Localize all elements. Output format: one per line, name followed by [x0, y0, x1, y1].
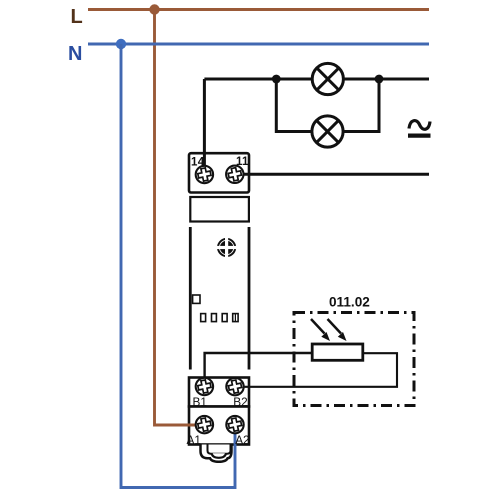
node: L junction [149, 4, 159, 14]
relay module K1: seam band below top block [190, 197, 249, 222]
photoresistor body [312, 344, 363, 360]
wire: L phase line (brown) [88, 8, 429, 11]
svg-text:11: 11 [236, 156, 249, 168]
wire: B2 to light sensor return [235, 353, 397, 387]
relay K1 DIN-rail clip inner band [208, 445, 231, 454]
relay K1 DIN-rail clip [201, 445, 232, 462]
relay K1 DIP switch 1 [201, 314, 206, 322]
svg-text:L: L [71, 6, 83, 28]
relay K1 DIP switch 3 [222, 314, 227, 322]
light arrow 2 [328, 319, 347, 341]
relay K1 indicator window [193, 295, 200, 303]
svg-text:A2: A2 [235, 433, 249, 447]
node: N junction [116, 39, 126, 49]
relay K1 central adjuster screw [217, 238, 237, 258]
relay K1 DIN-rail clip spring arc [212, 453, 227, 458]
wire: lamp feed from terminal 14 up [203, 79, 206, 175]
wire: lamp parallel loop [276, 79, 312, 132]
wire: top lamp line [204, 78, 429, 81]
relay module K1: A terminal block [189, 407, 249, 445]
svg-text:B1: B1 [193, 395, 207, 409]
terminal screw B2 [226, 378, 243, 395]
relay module K1: body right edge [248, 227, 251, 370]
relay module K1: B terminal block [189, 378, 249, 407]
relay module K1: body left edge [189, 227, 192, 370]
terminal screw A2 [226, 416, 243, 433]
lamp E2 [312, 116, 343, 147]
terminal screw 14 [196, 166, 213, 183]
AC source symbol [408, 121, 431, 136]
svg-text:011.02: 011.02 [329, 295, 370, 310]
relay K1 DIP switch 2 [212, 314, 217, 322]
terminal screw 11 [226, 166, 243, 183]
svg-text:N: N [68, 43, 82, 65]
wire: blue loop to A2 [121, 44, 235, 488]
lamp E1 [312, 63, 343, 94]
node: junction left [272, 75, 281, 84]
photocell box (dash-dot) [294, 313, 414, 406]
wire: N neutral line (blue) [88, 43, 429, 46]
wire: brown drop to A1 [155, 10, 205, 426]
wire: return line to terminal 11 [235, 173, 429, 176]
relay module K1 outline: top terminal block [189, 153, 249, 192]
terminal screw B1 [196, 378, 213, 395]
wire: B1 to light sensor [205, 353, 312, 387]
light arrow 1 [311, 319, 330, 341]
wire: lamp loop right side [344, 79, 380, 132]
svg-text:14: 14 [191, 157, 205, 169]
svg-text:A1: A1 [187, 433, 201, 447]
terminal screw A1 [196, 416, 213, 433]
relay K1 DIP switch 4 [233, 314, 238, 322]
svg-text:B2: B2 [233, 395, 247, 409]
node: junction right [375, 75, 384, 84]
